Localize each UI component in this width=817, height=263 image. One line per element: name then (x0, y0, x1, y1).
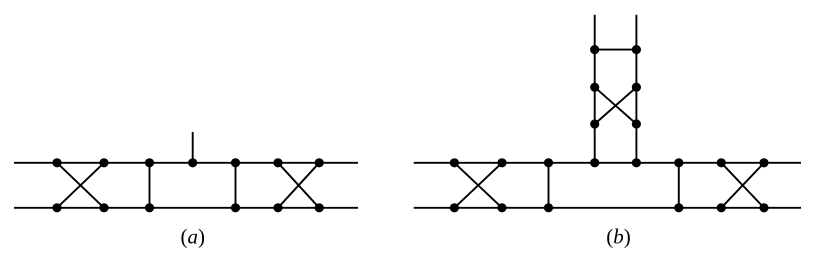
wire cross left (b) diagonal 1 (454, 163, 502, 208)
node (b) top 6 (674, 158, 683, 167)
node (a) top 6 (273, 158, 282, 167)
svg-text:(a): (a) (180, 225, 205, 249)
wire vertical rung (a) left (149, 163, 151, 208)
node (b) top 2 (497, 158, 506, 167)
node (b) ladder right level 3 (632, 119, 641, 128)
node (b) bottom 3 (544, 203, 553, 212)
node (a) bottom 4 (231, 203, 240, 212)
node (b) top 8 (759, 158, 768, 167)
wire ladder top rung (b) (595, 49, 637, 51)
node (a) top 2 (99, 158, 108, 167)
wire cross right (b) diagonal 1 (721, 163, 764, 208)
node (a) bottom 6 (315, 203, 324, 212)
node (b) top 1 (450, 158, 459, 167)
node (b) top 3 (544, 158, 553, 167)
node (a) top 3 (145, 158, 154, 167)
node (b) top 7 (717, 158, 726, 167)
wire bottom rail (b) (414, 207, 801, 209)
node (a) top 1 (52, 158, 61, 167)
wire stub (a) (192, 132, 194, 163)
node (b) bottom 2 (497, 203, 506, 212)
wire ladder left leg (b) (594, 15, 596, 163)
wire cross left (a) diagonal 1 (57, 163, 104, 208)
wire cross left (a) diagonal 2 (57, 163, 104, 208)
wire vertical rung (b) right (678, 163, 680, 208)
wire cross right (b) diagonal 2 (721, 163, 764, 208)
node (a) top 4 (188, 158, 197, 167)
wire vertical rung (a) right (235, 163, 237, 208)
node (b) top 4 ladder base left (590, 158, 599, 167)
node (a) top 5 (231, 158, 240, 167)
node (a) bottom 2 (99, 203, 108, 212)
node (b) ladder left level 1 (590, 45, 599, 54)
node (b) ladder left level 3 (590, 119, 599, 128)
node (a) top 7 (315, 158, 324, 167)
node (a) bottom 1 (52, 203, 61, 212)
wire ladder right leg (b) (635, 15, 637, 163)
node (b) ladder left level 2 (590, 83, 599, 92)
wire cross right (a) diagonal 2 (278, 163, 319, 208)
node (b) bottom 5 (717, 203, 726, 212)
node (b) ladder right level 2 (632, 83, 641, 92)
node (b) top 5 ladder base right (632, 158, 641, 167)
wire top rail (a) (14, 162, 358, 164)
wire vertical rung (b) left (548, 163, 550, 208)
wire bottom rail (a) (14, 207, 358, 209)
node (b) bottom 4 (674, 203, 683, 212)
wire cross left (b) diagonal 2 (454, 163, 502, 208)
node (b) bottom 6 (759, 203, 768, 212)
node (a) bottom 3 (145, 203, 154, 212)
wire ladder cross diagonal 1 (b) (595, 87, 637, 124)
node (a) bottom 5 (273, 203, 282, 212)
wire top rail (b) (414, 162, 801, 164)
node (b) ladder right level 1 (632, 45, 641, 54)
wire ladder cross diagonal 2 (b) (595, 87, 637, 124)
wire cross right (a) diagonal 1 (278, 163, 319, 208)
svg-text:(b): (b) (606, 225, 631, 249)
node (b) bottom 1 (450, 203, 459, 212)
